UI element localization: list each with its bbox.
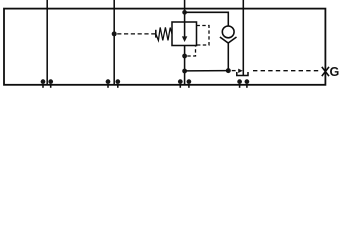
port line V1 (top stub) (46, 0, 48, 85)
dashed pilot line to spring (117, 33, 156, 35)
port stub below border at x=50.7 (50, 85, 52, 88)
spring of relief valve (156, 27, 172, 40)
port dot bottom right of V2 (115, 79, 120, 84)
port stub below border at x=188.9 (188, 85, 190, 88)
dashed vent link to pilot box (187, 46, 195, 56)
port stub below border at x=247.3 (246, 85, 248, 88)
check valve seat (220, 37, 237, 43)
relief valve outlet line (184, 46, 186, 85)
port dot bottom left of V2 (106, 79, 111, 84)
port dot under tank left (237, 79, 242, 84)
junction dot pilot takeoff (112, 31, 117, 36)
port dot bottom left of V1 (41, 79, 46, 84)
port stub below border at x=108 (107, 85, 109, 88)
port dot bottom left of V3 (178, 79, 183, 84)
dashed gauge line to G port (253, 70, 320, 72)
relief valve body R1 (172, 22, 197, 46)
pilot section dashed box (197, 26, 210, 46)
dashed drain to tank (232, 70, 237, 72)
relief valve internal flow arrow (184, 22, 186, 37)
check valve C1 ball (222, 26, 234, 38)
main inlet line V3 (top stub) (184, 0, 186, 22)
port dot under tank right (245, 79, 250, 84)
svg-text:G: G (330, 65, 340, 79)
port line V2 (top stub) (113, 0, 115, 85)
tank line V4 (top stub) (242, 0, 244, 75)
drain header line (185, 70, 229, 72)
port dot bottom right of V3 (187, 79, 192, 84)
port stub below border at x=117.8 (117, 85, 119, 88)
port stub below border at x=180.3 (179, 85, 181, 88)
junction dot vent branch (182, 54, 187, 59)
gauge port X symbol (322, 67, 329, 76)
port stub below border at x=239.2 (239, 85, 241, 88)
junction dot inlet split (182, 10, 187, 15)
junction dot check outlet (226, 68, 231, 73)
port dot bottom right of V1 (48, 79, 53, 84)
tank symbol T1 (237, 72, 248, 76)
manifold block outline (4, 9, 325, 85)
check valve outlet line (227, 43, 229, 71)
drain arrowhead (238, 69, 243, 73)
branch line to check valve (185, 12, 229, 26)
port stub below border at x=43 (42, 85, 44, 88)
junction dot drain tee (182, 69, 187, 74)
spring end bar (155, 30, 157, 38)
